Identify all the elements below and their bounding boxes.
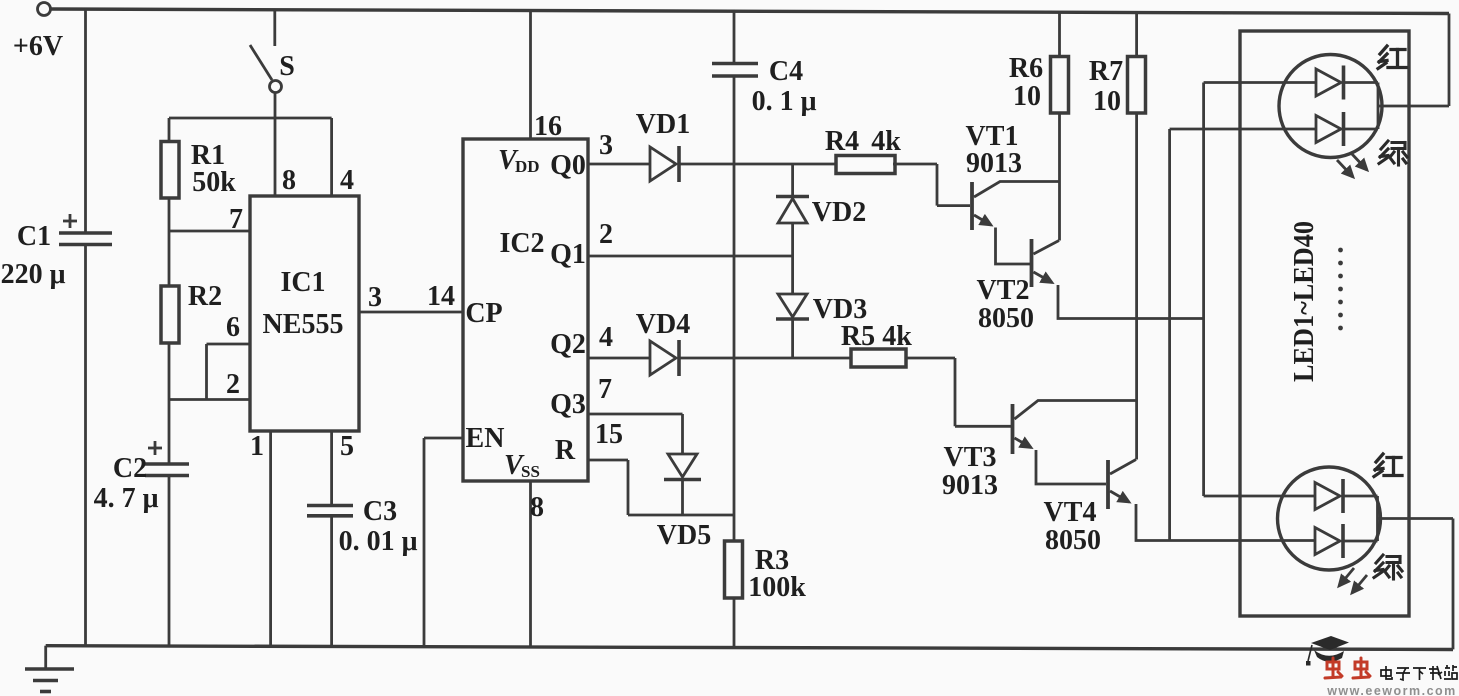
wire pin1 to ground bbox=[269, 431, 272, 646]
capacitor C3 bbox=[307, 496, 418, 557]
diode VD2 bbox=[776, 164, 866, 256]
diode VD1 bbox=[588, 109, 836, 182]
diode VD5 bbox=[657, 454, 711, 551]
svg-text:EN: EN bbox=[466, 423, 505, 454]
svg-text:15: 15 bbox=[595, 419, 623, 450]
svg-text:Q3: Q3 bbox=[550, 389, 586, 420]
svg-text:8050: 8050 bbox=[1045, 525, 1101, 556]
wire output top bbox=[1378, 105, 1449, 108]
label green bottom (hanzi) bbox=[1374, 555, 1402, 579]
wire pin3 to CP bbox=[359, 281, 463, 312]
svg-text:C3: C3 bbox=[363, 496, 397, 527]
svg-text:NE555: NE555 bbox=[263, 309, 344, 340]
resistor R4 bbox=[825, 126, 970, 206]
switch S bbox=[250, 10, 295, 93]
svg-text:R5: R5 bbox=[841, 321, 875, 352]
wire pin6 jog bbox=[207, 344, 251, 400]
svg-text:VT2: VT2 bbox=[977, 275, 1030, 306]
wire Q3 pin7 bbox=[588, 414, 683, 454]
svg-text:IC2: IC2 bbox=[499, 228, 544, 259]
resistor R3 bbox=[725, 541, 807, 648]
SECTION: IC2 bbox=[424, 11, 793, 648]
svg-text:VT3: VT3 bbox=[944, 442, 997, 473]
watermark site name (hanzi) bbox=[1381, 665, 1457, 680]
svg-text:4k: 4k bbox=[871, 126, 901, 157]
svg-text:0. 1 μ: 0. 1 μ bbox=[752, 86, 817, 117]
svg-text:C4: C4 bbox=[769, 56, 803, 87]
wire left rail lower bbox=[84, 245, 87, 646]
svg-text:R2: R2 bbox=[188, 281, 222, 312]
LED circle top bbox=[1279, 55, 1382, 158]
diode red bottom bbox=[1315, 483, 1340, 510]
svg-text:SS: SS bbox=[521, 462, 540, 481]
svg-text:www.eeworm.com: www.eeworm.com bbox=[1326, 684, 1457, 696]
svg-text:220 μ: 220 μ bbox=[1, 259, 66, 290]
svg-text:3: 3 bbox=[599, 130, 613, 161]
svg-text:3: 3 bbox=[368, 282, 382, 313]
svg-text:VD2: VD2 bbox=[812, 197, 866, 228]
svg-text:R4: R4 bbox=[825, 126, 859, 157]
LED group box bbox=[1240, 31, 1409, 616]
diode VD3 bbox=[776, 256, 867, 358]
svg-text:7: 7 bbox=[229, 204, 243, 235]
svg-text:7: 7 bbox=[598, 374, 612, 405]
capacitor C4 bbox=[712, 11, 817, 117]
svg-text:VD5: VD5 bbox=[657, 520, 711, 551]
svg-text:VT4: VT4 bbox=[1044, 497, 1097, 528]
svg-text:VD1: VD1 bbox=[636, 109, 690, 140]
wire pin4 drop bbox=[330, 118, 333, 196]
wire output bottom bbox=[1378, 517, 1454, 520]
svg-text:2: 2 bbox=[599, 219, 613, 250]
wire ground bus bbox=[46, 646, 1453, 650]
svg-text:DD: DD bbox=[515, 157, 540, 176]
LED circle bottom bbox=[1278, 467, 1381, 570]
svg-text:10: 10 bbox=[1013, 81, 1041, 112]
svg-text:14: 14 bbox=[427, 281, 455, 312]
svg-text:4k: 4k bbox=[882, 321, 912, 352]
node red-net vertical bbox=[1202, 83, 1205, 497]
svg-text:C1: C1 bbox=[17, 221, 51, 252]
svg-text:8050: 8050 bbox=[978, 303, 1034, 334]
dots ellipsis bbox=[1338, 248, 1343, 331]
diode green top bbox=[1316, 116, 1341, 143]
terminal +6V bbox=[13, 3, 63, 63]
SECTION: LEDs right bbox=[1170, 14, 1453, 650]
svg-text:16: 16 bbox=[534, 111, 562, 142]
svg-text:+6V: +6V bbox=[13, 31, 63, 62]
resistor R5 bbox=[841, 321, 1011, 426]
svg-text:0. 01 μ: 0. 01 μ bbox=[339, 526, 418, 557]
label green top (hanzi) bbox=[1379, 141, 1407, 165]
svg-text:8: 8 bbox=[282, 165, 296, 196]
pin 16 wire bbox=[531, 11, 563, 143]
svg-text:R7: R7 bbox=[1089, 56, 1123, 87]
wire cathode join top bbox=[1344, 81, 1379, 84]
wire red anode bottom bbox=[1204, 495, 1315, 498]
svg-text:9013: 9013 bbox=[942, 470, 998, 501]
wire cathode join bottom bbox=[1343, 495, 1378, 498]
svg-text:10: 10 bbox=[1093, 86, 1121, 117]
LED1 bicolor top bbox=[1170, 14, 1449, 178]
watermark cap bbox=[1306, 636, 1349, 666]
SECTION: left oscillator bbox=[94, 118, 463, 646]
svg-text:50k: 50k bbox=[192, 167, 236, 198]
transistor VT1 bbox=[966, 121, 1059, 264]
svg-text:LED1~LED40: LED1~LED40 bbox=[1289, 221, 1320, 382]
svg-text:6: 6 bbox=[226, 312, 240, 343]
svg-text:8: 8 bbox=[530, 492, 544, 523]
emission arrows top bbox=[1337, 160, 1353, 177]
SECTION: transistors bbox=[942, 12, 1315, 557]
wire pin2 bbox=[169, 398, 250, 401]
IC2 box bbox=[463, 139, 588, 481]
wire R1-top to pin4 bbox=[169, 117, 332, 120]
pin 8 wire to ground bbox=[530, 481, 544, 647]
svg-text:5: 5 bbox=[340, 431, 354, 462]
svg-text:R6: R6 bbox=[1009, 53, 1043, 84]
LED2 bicolor bottom bbox=[1204, 467, 1453, 649]
node green-net vertical bbox=[1168, 129, 1171, 541]
svg-text:4: 4 bbox=[599, 322, 613, 353]
svg-text:9013: 9013 bbox=[966, 148, 1022, 179]
IC U1: IC1 NE555 box bbox=[226, 165, 382, 462]
svg-text:IC1: IC1 bbox=[280, 267, 325, 298]
svg-text:4: 4 bbox=[340, 165, 354, 196]
transistor VT3 bbox=[942, 401, 1137, 502]
diode red top bbox=[1316, 69, 1341, 96]
resistor R2 bbox=[161, 231, 222, 400]
svg-text:2: 2 bbox=[226, 369, 240, 400]
transistor VT4 bbox=[1044, 460, 1315, 557]
SECTION: diodes middle bbox=[588, 11, 1011, 648]
svg-text:S: S bbox=[279, 51, 295, 82]
resistor R6 bbox=[1009, 12, 1069, 241]
resistor R7 bbox=[1089, 12, 1146, 460]
watermark chongchong (red) bbox=[1325, 658, 1370, 678]
label red bottom (hanzi) bbox=[1374, 454, 1402, 477]
svg-text:Q2: Q2 bbox=[550, 329, 586, 360]
SECTION: footer logo bbox=[1306, 636, 1457, 696]
wire +6V top rail bbox=[50, 9, 1450, 14]
ground bbox=[25, 646, 74, 692]
svg-text:Q1: Q1 bbox=[550, 239, 586, 270]
svg-text:1: 1 bbox=[250, 431, 264, 462]
svg-text:4. 7 μ: 4. 7 μ bbox=[94, 483, 159, 514]
diode VD4 bbox=[588, 309, 851, 376]
wire green anode top bbox=[1170, 128, 1316, 131]
svg-text:CP: CP bbox=[465, 298, 502, 329]
capacitor C1 bbox=[1, 214, 112, 290]
wire pin5 to ground bbox=[330, 431, 333, 506]
svg-text:VD4: VD4 bbox=[636, 309, 690, 340]
svg-text:Q0: Q0 bbox=[550, 150, 586, 181]
wire R pin15 bbox=[588, 460, 734, 515]
emission arrows bottom bbox=[1339, 568, 1354, 586]
svg-text:R: R bbox=[555, 435, 576, 466]
wire Q1 bbox=[588, 255, 793, 258]
wire pin7 bbox=[169, 230, 250, 233]
wire EN to ground bbox=[424, 438, 463, 647]
svg-text:100k: 100k bbox=[748, 572, 806, 603]
transistor VT2 bbox=[977, 239, 1204, 334]
capacitor C2 bbox=[94, 400, 189, 646]
wire C4 net vertical bbox=[733, 76, 736, 541]
label red top (hanzi) bbox=[1378, 46, 1406, 69]
diode green bottom bbox=[1315, 528, 1340, 555]
wire left rail upper bbox=[84, 9, 87, 233]
wire red anode top bbox=[1204, 81, 1316, 84]
svg-text:C2: C2 bbox=[113, 453, 147, 484]
wire switch to pin8 bbox=[274, 93, 277, 197]
resistor R1 bbox=[161, 118, 236, 231]
